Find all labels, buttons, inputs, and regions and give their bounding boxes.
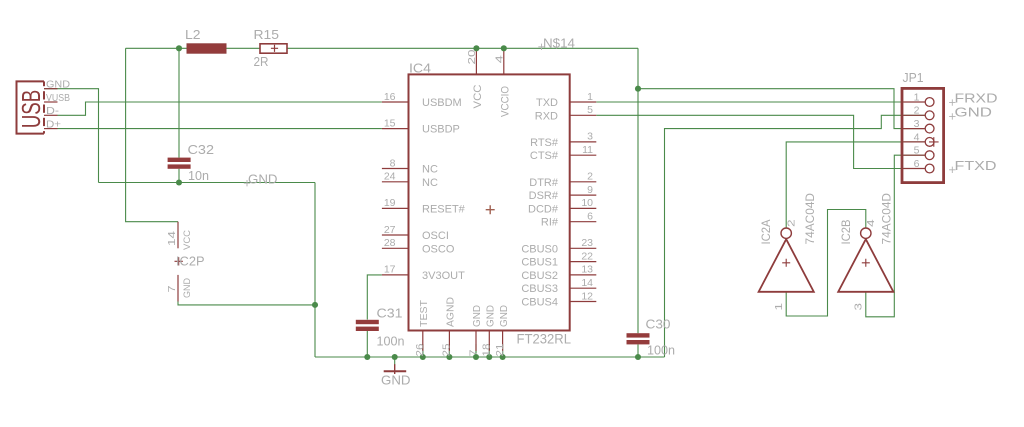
svg-text:GND: GND — [955, 104, 993, 119]
JP1 pin 6 — [904, 168, 926, 170]
JP1 origin cross at pin 4 — [929, 137, 939, 147]
svg-text:RTS#: RTS# — [530, 137, 559, 149]
svg-text:RXD: RXD — [535, 110, 558, 122]
junction: C30 on bottom rail — [635, 354, 641, 360]
wire: IC2P GND pin to GND drop — [178, 302, 315, 305]
resistor R15 — [260, 44, 287, 53]
svg-text:VCCIO: VCCIO — [499, 86, 511, 117]
wire: JP1 pin 5 down to IC2B input — [866, 155, 926, 317]
net label N$14 — [538, 44, 544, 50]
wires: FT232RL bottom pins to GND rail + junctions — [422, 344, 424, 357]
svg-text:7: 7 — [467, 349, 479, 356]
chip pin 28 (left) — [382, 247, 409, 249]
chip pin 13 CBUS2 (right) — [570, 274, 597, 276]
chip pin 26 TEST (bottom) — [422, 351, 424, 357]
svg-text:CBUS0: CBUS0 — [521, 243, 558, 255]
svg-text:GND: GND — [46, 79, 70, 91]
wire: USB D- to FT232RL USBDM (pin16) — [58, 102, 382, 115]
svg-text:15: 15 — [384, 117, 396, 129]
chip pin 6 RI# (right) — [570, 221, 597, 223]
svg-text:GND: GND — [248, 171, 278, 186]
svg-text:25: 25 — [441, 343, 453, 356]
svg-text:14: 14 — [166, 231, 178, 246]
capacitor C31 — [356, 320, 379, 324]
svg-text:19: 19 — [384, 197, 396, 209]
USB pin D- — [44, 114, 58, 116]
svg-text:18: 18 — [481, 343, 493, 356]
chip pin 3 RTS# (right) — [570, 141, 597, 143]
junction: VCC pin20 riser on top rail — [475, 48, 477, 74]
svg-text:4: 4 — [493, 55, 505, 63]
wire: IC2A input from IC2B output — [786, 210, 866, 317]
svg-text:D-: D- — [46, 105, 60, 117]
svg-text:8: 8 — [390, 157, 396, 169]
svg-text:C30: C30 — [646, 316, 671, 331]
svg-text:VUSB: VUSB — [46, 92, 70, 104]
svg-text:7: 7 — [166, 285, 178, 292]
wire: TXD (pin1) to JP1 pin 1 — [596, 101, 925, 103]
wire: USB D+ to FT232RL USBDP (pin15) — [58, 128, 382, 130]
svg-text:IC2A: IC2A — [761, 219, 773, 244]
svg-text:DSR#: DSR# — [529, 190, 559, 202]
chip pin 23 CBUS0 (right) — [570, 247, 597, 249]
svg-text:28: 28 — [384, 237, 396, 249]
chip pin 5 RXD (right) — [570, 114, 597, 116]
wire: left GND rail down to bottom rail — [314, 183, 316, 358]
chip pin 17 (left) — [382, 274, 409, 276]
svg-text:16: 16 — [384, 91, 396, 103]
wire: 3V3OUT (pin17) to C31 — [367, 275, 382, 320]
junction: N$14 branch — [635, 86, 641, 92]
svg-text:27: 27 — [384, 224, 396, 236]
ground symbol GND — [394, 364, 396, 374]
wire: GND up right side to JP1 pin 2 — [665, 115, 926, 357]
svg-text:11: 11 — [582, 144, 593, 156]
svg-text:5: 5 — [914, 145, 920, 157]
svg-text:FTXD: FTXD — [955, 158, 997, 173]
USB pin GND — [44, 88, 58, 90]
chip pin 22 CBUS1 (right) — [570, 261, 597, 263]
svg-text:20: 20 — [466, 49, 478, 64]
svg-text:26: 26 — [414, 343, 426, 356]
svg-text:17: 17 — [384, 264, 396, 276]
svg-text:74AC04D: 74AC04D — [803, 193, 817, 245]
JP1 pin 2 — [904, 114, 926, 116]
net label GND (JP1 pin2) — [949, 113, 955, 119]
IC4 FT232RL chip body — [409, 74, 570, 330]
svg-text:USBDM: USBDM — [422, 97, 462, 109]
svg-text:3: 3 — [587, 131, 593, 143]
wire: vertical feed down to IC2P VCC — [126, 48, 178, 221]
svg-text:D+: D+ — [46, 119, 61, 131]
JP1 pin 5 — [904, 154, 926, 156]
JP1 pin 3 — [904, 128, 926, 130]
svg-text:6: 6 — [914, 158, 920, 170]
svg-text:VCC: VCC — [472, 84, 484, 108]
inverter IC2A 74AC04D — [759, 239, 814, 292]
chip pin 18 GND (bottom) — [488, 351, 490, 357]
svg-text:GND: GND — [485, 305, 497, 327]
wire: C31 bottom to bottom rail — [366, 331, 368, 357]
chip pin 8 (left) — [382, 167, 409, 169]
wire: C32 bottom to left GND rail — [178, 169, 180, 183]
chip pin 27 (left) — [382, 234, 409, 236]
IC2P origin cross — [175, 257, 183, 265]
svg-text:13: 13 — [581, 264, 593, 276]
wire: left GND rail — [99, 182, 316, 184]
svg-text:NC: NC — [422, 177, 438, 189]
junction: IC2P GND joins drop — [312, 302, 318, 308]
svg-text:TEST: TEST — [418, 299, 430, 327]
wire: GND net bottom rail — [315, 356, 665, 358]
svg-text:RESET#: RESET# — [422, 203, 466, 215]
svg-text:23: 23 — [581, 237, 593, 249]
svg-text:CBUS1: CBUS1 — [521, 257, 558, 269]
chip pin 1 TXD (right) — [570, 101, 597, 103]
chip origin cross — [486, 205, 495, 214]
svg-text:CBUS2: CBUS2 — [521, 270, 558, 282]
svg-text:9: 9 — [587, 184, 593, 196]
svg-text:IC4: IC4 — [409, 61, 431, 76]
svg-text:2R: 2R — [254, 54, 269, 69]
svg-text:CTS#: CTS# — [530, 150, 559, 162]
svg-text:USB: USB — [17, 90, 46, 129]
USB pin VUSB (unconnected stub) — [44, 101, 58, 103]
chip pin 19 (left) — [382, 207, 409, 209]
svg-text:2: 2 — [914, 105, 920, 117]
svg-text:NC: NC — [422, 163, 438, 175]
svg-text:IC2P: IC2P — [176, 253, 205, 268]
svg-text:21: 21 — [494, 343, 506, 356]
chip pin 2 DTR# (right) — [570, 181, 597, 183]
chip pin 15 (left) — [382, 128, 409, 130]
svg-text:USBDP: USBDP — [422, 124, 460, 136]
chip pin 21 GND (bottom) — [502, 351, 504, 357]
svg-text:DCD#: DCD# — [528, 203, 559, 215]
svg-text:OSCI: OSCI — [422, 230, 449, 242]
svg-text:3V3OUT: 3V3OUT — [422, 270, 465, 282]
chip pin 7 GND (bottom) — [475, 351, 477, 357]
wire: C30 below to bottom rail — [637, 344, 639, 357]
svg-text:3: 3 — [853, 303, 865, 311]
svg-text:OSCO: OSCO — [422, 243, 455, 255]
svg-text:10n: 10n — [188, 168, 209, 183]
junction: GND symbol stem — [394, 357, 396, 365]
svg-text:DTR#: DTR# — [529, 177, 559, 189]
svg-text:L2: L2 — [185, 27, 201, 42]
svg-text:1: 1 — [587, 91, 593, 103]
wire: N$14 vertical down to C30 — [637, 48, 639, 333]
svg-text:CBUS3: CBUS3 — [521, 283, 558, 295]
svg-text:2: 2 — [786, 219, 798, 227]
pin stub: VCCIO pin4 riser — [503, 48, 505, 74]
capacitor C32 — [168, 158, 191, 162]
chip pin 12 CBUS4 (right) — [570, 301, 597, 303]
svg-text:FT232RL: FT232RL — [517, 331, 572, 346]
svg-text:VCC: VCC — [182, 230, 193, 250]
svg-text:GND: GND — [471, 305, 483, 327]
svg-text:1: 1 — [914, 91, 920, 103]
chip pin 24 (left) — [382, 181, 409, 183]
svg-text:FRXD: FRXD — [955, 91, 998, 106]
svg-text:GND: GND — [182, 278, 193, 298]
svg-text:10: 10 — [581, 197, 593, 209]
svg-text:100n: 100n — [647, 343, 675, 358]
svg-text:12: 12 — [581, 290, 593, 302]
connector JP1 body — [902, 88, 944, 182]
wire: RXD (pin5) to JP1 pin 6 / FTXD — [596, 115, 925, 168]
svg-text:74AC04D: 74AC04D — [880, 193, 894, 245]
chip pin 14 CBUS3 (right) — [570, 287, 597, 289]
wire: C32 branch down from top rail — [178, 48, 180, 157]
svg-text:6: 6 — [587, 211, 593, 223]
svg-text:R15: R15 — [254, 27, 280, 42]
chip pin 9 DSR# (right) — [570, 194, 597, 196]
svg-text:22: 22 — [581, 250, 593, 262]
chip pin 10 DCD# (right) — [570, 207, 597, 209]
junction: top rail / L2 / C32 — [176, 45, 182, 51]
svg-text:RI#: RI# — [541, 217, 559, 229]
connector X? USB socket symbol — [17, 81, 45, 133]
junction: C32 on left GND rail — [176, 179, 182, 185]
svg-text:JP1: JP1 — [903, 70, 924, 85]
svg-text:IC2B: IC2B — [841, 219, 853, 244]
svg-text:TXD: TXD — [536, 97, 558, 109]
svg-text:24: 24 — [384, 171, 396, 183]
USB pin D+ — [44, 128, 58, 130]
svg-text:100n: 100n — [377, 334, 405, 349]
svg-text:GND: GND — [498, 305, 510, 327]
IC2P pin 7 GND — [177, 275, 179, 302]
wire: USB GND pin to left GND rail — [44, 89, 99, 183]
svg-text:5: 5 — [587, 104, 593, 116]
wire: VCC top rail from USB area to N$14 corner — [126, 47, 638, 49]
svg-text:C31: C31 — [377, 306, 403, 321]
capacitor C30 — [627, 333, 650, 337]
svg-text:AGND: AGND — [445, 297, 457, 327]
svg-text:3: 3 — [914, 118, 920, 130]
svg-text:CBUS4: CBUS4 — [521, 297, 558, 309]
chip pin 11 CTS# (right) — [570, 154, 597, 156]
inverter IC2B 74AC04D — [838, 239, 893, 292]
svg-text:1: 1 — [773, 303, 785, 311]
chip pin 16 (left) — [382, 101, 409, 103]
net label GND (left rail) — [244, 180, 250, 186]
svg-text:14: 14 — [581, 277, 593, 289]
chip pin 25 AGND (bottom) — [448, 351, 450, 357]
svg-text:2: 2 — [587, 171, 593, 183]
svg-text:4: 4 — [865, 219, 877, 227]
svg-text:4: 4 — [914, 131, 920, 143]
junction: C31 on bottom rail — [364, 354, 370, 360]
IC2P pin 14 VCC — [177, 222, 179, 249]
net label FRXD — [949, 99, 955, 105]
wire: N$14 branch right to JP1 pin 3 — [638, 89, 925, 129]
JP1 pin 1 — [904, 101, 926, 103]
net label FTXD — [949, 167, 955, 173]
svg-text:N$14: N$14 — [543, 36, 575, 51]
inductor L2 (ferrite bead) — [187, 44, 226, 53]
JP1 pin 4 — [904, 141, 926, 143]
svg-text:GND: GND — [381, 372, 411, 387]
wire: JP1 pin 4 to IC2A output bubble — [786, 142, 925, 229]
svg-text:C32: C32 — [188, 142, 215, 157]
